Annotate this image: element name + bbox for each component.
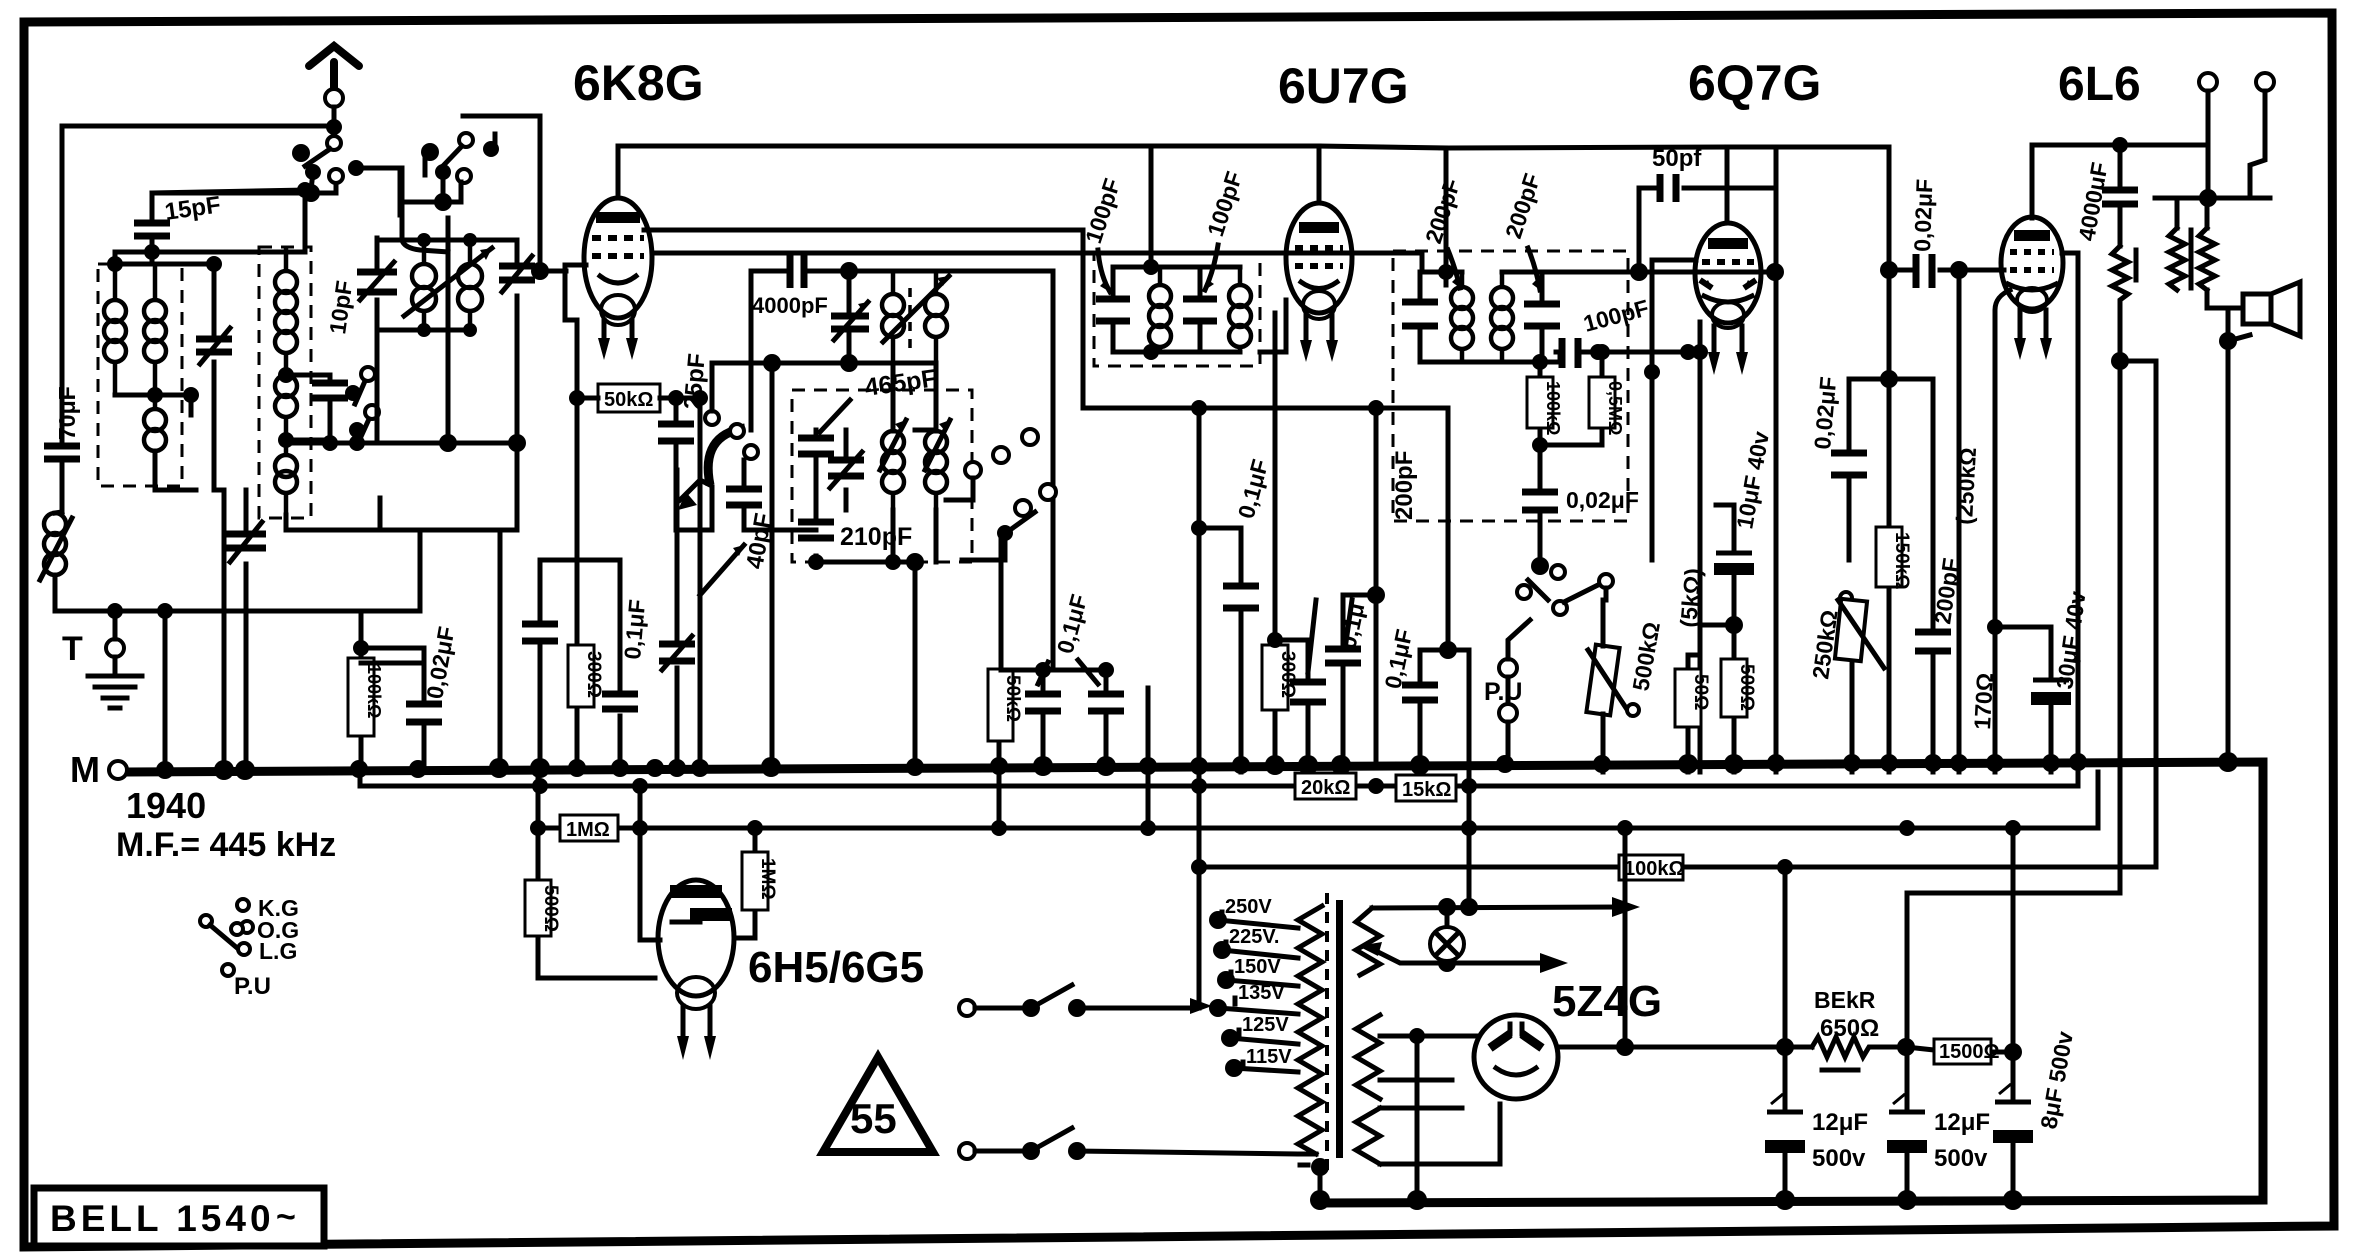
wire IF2 bottom y362 xyxy=(1462,360,1560,365)
svg-text:500v: 500v xyxy=(1812,1145,1866,1172)
transformer secondary filament winding xyxy=(1356,1015,1380,1099)
ground xyxy=(88,657,142,708)
svg-text:25pF: 25pF xyxy=(679,352,711,410)
svg-text:6Q7G: 6Q7G xyxy=(1688,55,1821,111)
svg-text:55: 55 xyxy=(850,1095,897,1142)
svg-text:1MΩ: 1MΩ xyxy=(757,858,778,900)
wire osc switch frame xyxy=(463,116,566,271)
BEKR 650 resistor xyxy=(1625,1045,1812,1050)
svg-text:125V: 125V xyxy=(1242,1014,1289,1036)
IF2 coil 1 xyxy=(1451,287,1473,309)
resistor 1500Ω box xyxy=(1906,1047,2013,1052)
svg-text:P.U: P.U xyxy=(234,973,271,1000)
capacitor 0.1uF grid 6U7G xyxy=(1239,528,1244,772)
coil L3c xyxy=(275,455,297,477)
wire bottom left y611 xyxy=(55,609,420,614)
coil L3b xyxy=(275,375,297,397)
resistor 20kΩ box xyxy=(1295,773,1356,799)
bus bumps left xyxy=(156,761,174,779)
svg-text:(5kΩ): (5kΩ) xyxy=(1675,567,1706,628)
svg-text:20kΩ: 20kΩ xyxy=(1301,777,1350,799)
svg-text:300Ω: 300Ω xyxy=(1277,651,1298,698)
transformer secondary dial winding xyxy=(1356,908,1380,975)
capacitor 0.1uF f xyxy=(1420,408,1469,786)
capacitor 10pF xyxy=(312,279,357,440)
mains switch row2 xyxy=(959,1128,1086,1160)
wire x999 bus to line2 xyxy=(997,766,1002,828)
wire dial lamp line 1 xyxy=(1372,907,1620,908)
IF1 wires xyxy=(1113,267,1240,352)
wire coil L3 bottom y443 xyxy=(286,441,517,446)
coil L1c xyxy=(144,409,166,431)
node coil taps xyxy=(147,387,163,403)
capacitor 0.1uF a xyxy=(1041,670,1046,772)
capacitor 4000uF xyxy=(2118,145,2123,246)
oscillator tuning cap xyxy=(357,238,397,330)
svg-text:12μF: 12μF xyxy=(1812,1109,1868,1136)
wire line1 y786 xyxy=(360,772,2078,786)
wire x2156 xyxy=(2120,361,2156,867)
svg-text:50Ω: 50Ω xyxy=(1690,674,1711,710)
resistor 50kΩ box xyxy=(598,384,660,412)
tube 6U7G xyxy=(1286,203,1352,362)
svg-text:15kΩ: 15kΩ xyxy=(1402,779,1451,801)
wire y528 xyxy=(1199,526,1241,531)
svg-text:70μF: 70μF xyxy=(54,386,80,440)
tube 6Q7G xyxy=(1695,223,1761,375)
resistor 0.5MΩ vertical box xyxy=(1540,352,1602,445)
wire y627 xyxy=(1995,625,2051,630)
wire 6Q7G cathode xyxy=(1698,322,1703,625)
potentiometer 250kΩ xyxy=(1807,592,1884,772)
wire core bottom to inner bus xyxy=(1300,1163,1313,1168)
vertical 250k line xyxy=(1957,270,1962,772)
speaker xyxy=(2207,282,2300,762)
wire x2120 down xyxy=(2118,361,2123,893)
capacitor 12uF a xyxy=(1783,867,1788,1200)
svg-text:200pF: 200pF xyxy=(1391,451,1418,520)
svg-text:150V: 150V xyxy=(1234,956,1281,978)
switch KG OG LG PU xyxy=(200,895,299,1000)
svg-text:650Ω: 650Ω xyxy=(1820,1015,1879,1042)
mains switch row1 xyxy=(959,985,1212,1017)
tube 6L6 xyxy=(2001,217,2063,360)
title block BELL 1540 xyxy=(34,1188,324,1246)
wires padder bottom xyxy=(816,560,915,565)
svg-text:1500Ω: 1500Ω xyxy=(1939,1041,2000,1063)
resistor 100kΩ vertical box xyxy=(1538,362,1543,445)
6U7G cathode network xyxy=(1273,313,1278,772)
bus bumps right xyxy=(1843,754,1861,772)
IF1 coil 2 xyxy=(1229,285,1251,307)
capacitor 0.02uF det xyxy=(1538,445,1543,560)
line3 y867 xyxy=(1199,865,2156,870)
trimmer mid padder xyxy=(844,430,849,510)
wire y530 xyxy=(380,528,500,533)
wire x538 chain xyxy=(538,772,655,978)
wire HV leads xyxy=(1380,1104,1500,1164)
capacitor 0.1uF b xyxy=(1104,670,1109,772)
variable cap main tuning xyxy=(226,490,266,774)
svg-text:BEkR: BEkR xyxy=(1814,987,1876,1013)
vertical x1776 xyxy=(1774,272,1779,772)
dashed box padder xyxy=(792,390,972,562)
capacitor 0.02uF left xyxy=(361,663,424,772)
svg-text:P.U: P.U xyxy=(1484,678,1522,706)
wire L1 top to junction xyxy=(115,252,305,264)
M bus xyxy=(125,762,2263,1203)
wire y640 xyxy=(1275,638,1308,643)
resistor 300Ω box xyxy=(568,645,594,707)
triangle warning 55 xyxy=(823,1057,933,1152)
wire line2 y828 xyxy=(538,772,2098,828)
capacitor 0.1uF d xyxy=(1343,408,1376,772)
resistor zigzag right1 xyxy=(2112,246,2128,361)
wire left drop x772 xyxy=(770,363,775,772)
wire trimmer to bus xyxy=(214,490,224,772)
wire cathode link xyxy=(540,560,620,772)
wire 6Q7G grid left xyxy=(1652,260,1696,372)
IF1 cap 2 xyxy=(1198,267,1203,352)
svg-text:6U7G: 6U7G xyxy=(1278,58,1409,114)
capacitor 50pF xyxy=(1639,147,1776,272)
wire 6L6 screen xyxy=(2062,253,2078,772)
IF2 coil 2 xyxy=(1491,287,1513,309)
coil L3a xyxy=(275,271,297,293)
capacitor 465pF xyxy=(814,430,819,485)
wire 6K8G grid rail 1 xyxy=(644,228,1083,233)
padder coils xyxy=(882,431,904,453)
dashed box coil L3 xyxy=(259,247,311,518)
capacitor 25pF xyxy=(674,398,679,470)
inner bus dots xyxy=(1775,1190,1795,1210)
IF transformer 2 dashed box xyxy=(1393,251,1628,521)
oscillator coil pair xyxy=(882,272,949,362)
svg-text:225V.: 225V. xyxy=(1229,926,1279,948)
svg-text:0,5MΩ: 0,5MΩ xyxy=(1605,381,1625,435)
svg-text:300Ω: 300Ω xyxy=(583,651,604,698)
wire osc coupling verticals xyxy=(448,218,517,772)
transformer primary winding xyxy=(1298,906,1322,1154)
wire L3 bottom to y530 left xyxy=(286,498,380,530)
svg-text:250V: 250V xyxy=(1225,896,1272,918)
svg-text:170Ω: 170Ω xyxy=(1969,672,1998,730)
capacitor 210pF xyxy=(814,485,819,562)
svg-text:100kΩ: 100kΩ xyxy=(1543,381,1563,435)
svg-text:500Ω: 500Ω xyxy=(540,885,561,932)
coil L2 bottom left xyxy=(44,513,66,535)
wire 6U7G plate rail right xyxy=(1319,146,1727,285)
svg-text:50pf: 50pf xyxy=(1652,145,1702,172)
wire osc bottom y363 xyxy=(712,363,935,411)
switch S1b xyxy=(402,133,499,211)
svg-text:~: ~ xyxy=(276,1198,296,1236)
wire rail drop to IF1 xyxy=(1149,146,1154,267)
wire y379 to 200p xyxy=(1889,377,1933,382)
diode line y272 to 6Q7G xyxy=(1542,270,1775,275)
wire terminals top xyxy=(2199,73,2217,91)
IF2 cap 1 xyxy=(1418,272,1423,362)
capacitor 70uF left xyxy=(44,386,80,512)
svg-text:6H5/6G5: 6H5/6G5 xyxy=(748,943,924,992)
wire 6Q7G anode to rail xyxy=(1727,147,1889,379)
IF1 cap 1 xyxy=(1111,267,1116,352)
capacitor 12uF b xyxy=(1905,893,1910,1200)
transformer core xyxy=(1325,893,1329,1175)
wire 6L6 anode xyxy=(2032,145,2208,218)
capacitor 10uF electrolytic xyxy=(1716,505,1734,625)
capacitor 8uF xyxy=(2011,828,2016,1200)
wire x640 to 6H5 xyxy=(640,786,660,940)
svg-text:1MΩ: 1MΩ xyxy=(566,819,610,841)
svg-text:150kΩ: 150kΩ xyxy=(1891,532,1912,590)
vertical feed x999 to 50k xyxy=(999,533,1001,772)
capacitor 40pF xyxy=(742,460,747,485)
tone cap 0.02uF xyxy=(1880,370,1898,388)
switch contacts right of padder xyxy=(1022,429,1038,445)
vertical x1199 long xyxy=(1197,408,1202,1008)
switch PU cluster xyxy=(1531,557,1549,575)
wire 6K8G anode to top rail xyxy=(618,146,1318,198)
svg-text:5Z4G: 5Z4G xyxy=(1552,977,1662,1026)
wire 6K8G grid rail 2 xyxy=(652,253,1422,272)
svg-text:6K8G: 6K8G xyxy=(573,55,704,111)
capacitor 30uF electrolytic xyxy=(2033,627,2051,772)
switch S1a xyxy=(292,136,343,202)
output transformer xyxy=(2169,198,2215,290)
capacitor 100pF coupling xyxy=(1556,352,1700,362)
svg-text:0,02μF: 0,02μF xyxy=(1566,487,1639,513)
capacitor 0.1uF c xyxy=(1306,640,1311,772)
bus bumps middle xyxy=(906,758,924,776)
svg-text:115V: 115V xyxy=(1246,1046,1292,1068)
svg-text:T: T xyxy=(62,630,83,668)
wire padder coil risers xyxy=(893,363,936,431)
wire band wire y193 xyxy=(152,184,336,193)
transformer secondary HV winding xyxy=(1356,1108,1380,1164)
node antenna junction xyxy=(326,119,342,135)
wire x1469 from above xyxy=(1467,786,1472,907)
capacitor 0.02uF coupling xyxy=(1889,268,2004,273)
wires osc top/bottom xyxy=(377,240,517,443)
svg-text:0,02μF: 0,02μF xyxy=(1909,178,1938,252)
IF transformer 1 dashed box xyxy=(1094,253,1260,366)
wire dial lamp line 2 arrow left xyxy=(1358,942,1382,956)
svg-text:1940: 1940 xyxy=(126,785,206,826)
svg-text:500Ω: 500Ω xyxy=(1736,664,1757,711)
svg-text:500v: 500v xyxy=(1934,1145,1988,1172)
capacitor 15pF xyxy=(134,191,222,264)
svg-text:100kΩ: 100kΩ xyxy=(1624,858,1685,880)
wire y611 corner up xyxy=(418,530,423,611)
wire primary bottom lead xyxy=(1077,1151,1316,1154)
svg-text:4000pF: 4000pF xyxy=(752,293,828,318)
wire antenna top to left column xyxy=(62,126,334,444)
resistor 100kΩ vertical left xyxy=(359,611,364,772)
trimmer cap C3 xyxy=(196,264,232,490)
coil L1b xyxy=(144,300,166,322)
tube 6H5/6G5 xyxy=(658,880,734,1060)
resistor 1MΩ box h xyxy=(560,815,618,841)
rotary switch arc xyxy=(708,428,745,485)
svg-text:M: M xyxy=(70,749,100,790)
IF1 coil 1 xyxy=(1149,285,1171,307)
resistor 1MΩ vertical box xyxy=(738,828,755,938)
svg-text:BELL 1540: BELL 1540 xyxy=(50,1198,275,1239)
wire cathode column to bus xyxy=(565,320,577,772)
pilot lamp xyxy=(1445,907,1450,963)
vertical 170Ω xyxy=(1995,290,2010,772)
svg-text:210pF: 210pF xyxy=(840,523,912,551)
transformer tap dots and leads xyxy=(1209,911,1227,929)
tube 5Z4G xyxy=(1474,1015,1558,1099)
svg-text:50kΩ: 50kΩ xyxy=(1002,675,1023,722)
potentiometer 500kΩ xyxy=(1586,600,1665,772)
resistor 150kΩ vertical box xyxy=(1887,379,1892,772)
capacitor 0.1uF cathode xyxy=(618,560,623,772)
wire switch frame to coils xyxy=(402,168,448,252)
IF2 cap 2 xyxy=(1540,272,1545,362)
resistor 50Ω vertical box xyxy=(1698,625,1703,772)
PU terminals xyxy=(1499,659,1517,677)
wire L1 top to trimmer top xyxy=(115,262,214,267)
wire y670 caps pair xyxy=(1001,668,1106,673)
svg-text:(250kΩ: (250kΩ xyxy=(1951,447,1981,526)
switch S2 xyxy=(345,367,379,451)
wire filament leads to 5Z4G xyxy=(1380,1036,1476,1080)
wire x1083 grid return xyxy=(1083,230,1448,408)
wire x1148 bus to line2 xyxy=(1146,688,1151,828)
variable cap osc primary xyxy=(831,262,869,372)
resistor 500Ω vertical box left xyxy=(525,880,551,936)
resistor 15kΩ box xyxy=(1396,775,1456,801)
svg-text:100kΩ: 100kΩ xyxy=(364,664,384,718)
wire 6K8G left grid to left column xyxy=(565,265,586,320)
wire 6U7G anode xyxy=(1317,146,1322,203)
resistor 300Ω vertical box xyxy=(1262,645,1288,710)
wire left col down to bus xyxy=(163,611,168,770)
5Z4G connections xyxy=(1558,1045,1625,1050)
wire y625 xyxy=(1700,623,1734,628)
svg-text:6L6: 6L6 xyxy=(2058,58,2141,111)
wire 6U7G grid to IF1 xyxy=(1260,300,1286,352)
line4 y893 xyxy=(1907,891,2120,896)
capacitor 200pF right xyxy=(1931,379,1936,772)
coil L1a xyxy=(113,264,118,300)
resistor 50kΩ vertical box xyxy=(988,669,1013,741)
tube 6K8G xyxy=(584,198,652,360)
capacitor trimmer pad xyxy=(675,470,680,772)
capacitor 4000pF xyxy=(751,271,1053,670)
wire T to wire xyxy=(113,611,118,639)
svg-text:M.F.= 445 kHz: M.F.= 445 kHz xyxy=(116,826,336,864)
osc trimmer right xyxy=(499,240,535,292)
svg-text:50kΩ: 50kΩ xyxy=(604,389,653,411)
wire from S1 right to osc section xyxy=(356,165,400,215)
svg-text:L.G: L.G xyxy=(259,938,297,964)
antenna xyxy=(309,46,359,120)
svg-text:12μF: 12μF xyxy=(1934,1109,1990,1136)
resistor 500Ω vertical box xyxy=(1732,625,1737,772)
oscillator coil pair xyxy=(404,240,492,330)
svg-text:0,1μF: 0,1μF xyxy=(619,598,650,660)
resistor 100kΩ box h xyxy=(1619,855,1683,880)
dashed box antenna coil L1 xyxy=(98,264,182,486)
